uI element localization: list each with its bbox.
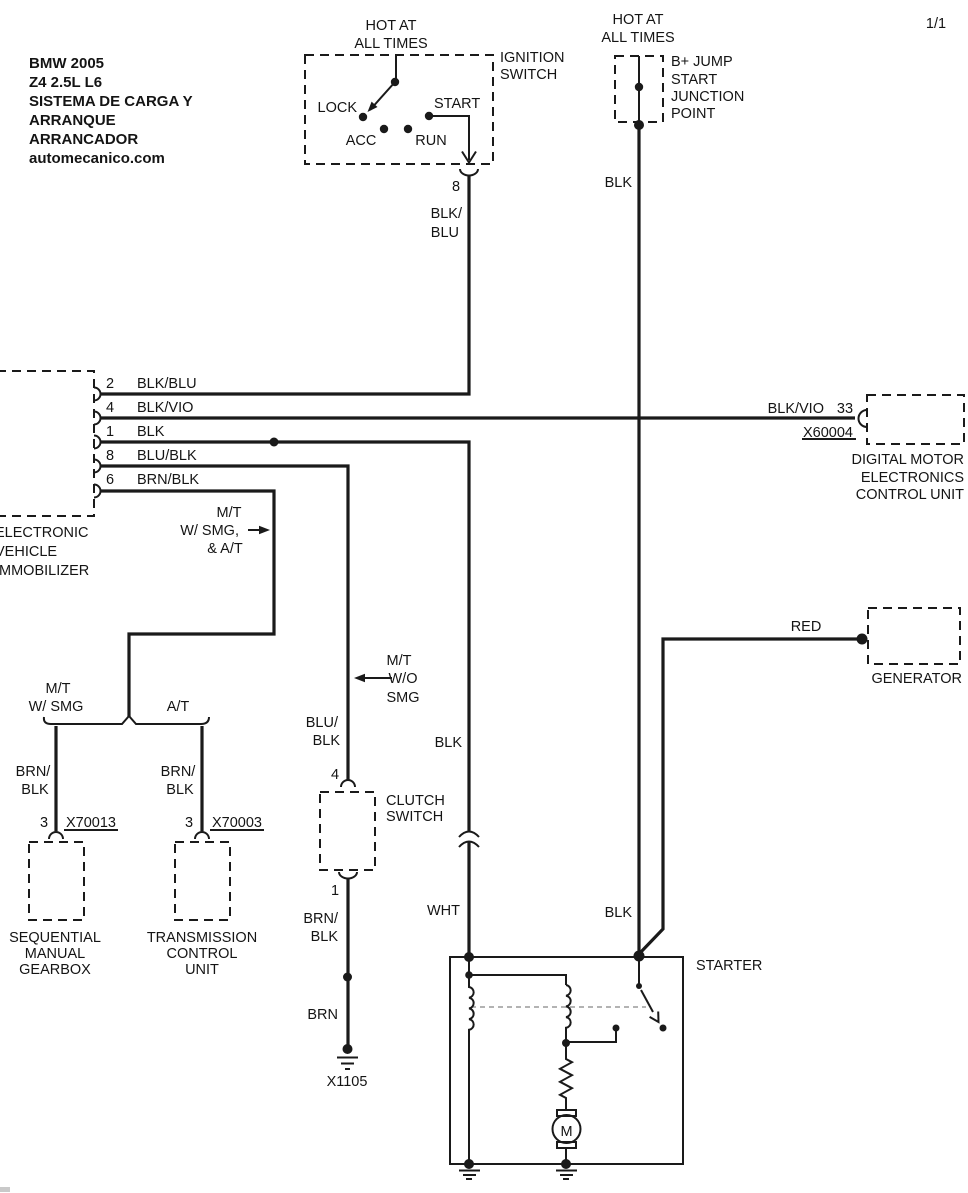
pin 8 wire BLU/BLK (to clutch switch)	[101, 466, 348, 780]
svg-text:ELECTRONICS: ELECTRONICS	[861, 470, 964, 486]
note M/T W/O SMG with arrow	[354, 653, 420, 706]
svg-text:JUNCTION: JUNCTION	[671, 89, 744, 105]
svg-text:LOCK: LOCK	[318, 100, 358, 116]
electronic vehicle immobilizer box	[0, 371, 94, 516]
svg-text:8: 8	[106, 448, 114, 464]
wire BLK (B+ to starter)	[637, 125, 640, 951]
svg-text:M/T: M/T	[217, 505, 242, 521]
svg-text:STARTER: STARTER	[696, 958, 762, 974]
clutch switch box	[320, 792, 375, 870]
digital motor electronics control unit box	[867, 395, 964, 444]
generator box	[868, 608, 960, 664]
wire BRN/BLK (M/T W/SMG branch)	[54, 726, 57, 831]
node B+/RED junction at starter	[634, 951, 645, 962]
ignition switch pivot dot	[391, 78, 399, 86]
svg-text:ALL TIMES: ALL TIMES	[354, 36, 427, 52]
solenoid switch arm	[641, 990, 653, 1012]
svg-text:MANUAL: MANUAL	[25, 946, 85, 962]
svg-text:X70013: X70013	[66, 815, 116, 831]
wire BRN/BLK below clutch switch	[346, 879, 349, 1049]
node ACC	[380, 125, 388, 133]
node START	[425, 112, 433, 120]
svg-text:CONTROL UNIT: CONTROL UNIT	[856, 487, 964, 503]
solenoid contact stud left	[613, 1025, 620, 1032]
ground (starter motor)	[561, 1159, 571, 1169]
ignition switch arm to LOCK	[370, 82, 395, 110]
wire BRN/BLK (A/T branch)	[200, 726, 203, 831]
svg-text:1/1: 1/1	[926, 16, 946, 32]
svg-text:BLK/BLU: BLK/BLU	[137, 376, 197, 392]
hold-in coil	[469, 957, 474, 1164]
svg-text:X70003: X70003	[212, 815, 262, 831]
immobilizer pin bumps	[94, 388, 101, 498]
pull-in coil	[566, 985, 571, 1043]
motor M	[557, 1110, 576, 1116]
svg-text:RED: RED	[791, 619, 822, 635]
svg-text:TRANSMISSION: TRANSMISSION	[147, 930, 257, 946]
splice node on pin 1 wire	[270, 438, 279, 447]
svg-text:START: START	[434, 96, 480, 112]
svg-text:B+ JUMP: B+ JUMP	[671, 54, 733, 70]
note M/T W/ SMG & A/T with arrow	[180, 505, 270, 557]
svg-text:BRN/: BRN/	[161, 764, 197, 780]
power label HOT AT ALL TIMES (B+ feed)	[601, 12, 674, 46]
pin 1 wire BLK (to starter WHT)	[101, 442, 469, 957]
svg-text:ARRANQUE: ARRANQUE	[29, 112, 116, 129]
svg-text:BLU/BLK: BLU/BLK	[137, 448, 197, 464]
node B+	[635, 83, 643, 91]
svg-text:SEQUENTIAL: SEQUENTIAL	[9, 930, 101, 946]
corner artifact	[0, 1187, 10, 1192]
svg-text:2: 2	[106, 376, 114, 392]
connector cup clutch bottom pin 1	[339, 872, 357, 879]
mechanical linkage dashed line	[471, 1006, 646, 1008]
wire break symbol on BLK/WHT wire	[459, 832, 479, 848]
svg-text:BLK: BLK	[137, 424, 165, 440]
svg-text:W/ SMG,: W/ SMG,	[180, 523, 239, 539]
svg-text:4: 4	[331, 767, 339, 783]
svg-text:BLK: BLK	[21, 782, 49, 798]
stud to pull-in coil wire	[566, 1028, 616, 1042]
svg-text:6: 6	[106, 472, 114, 488]
svg-text:GENERATOR: GENERATOR	[871, 671, 962, 687]
node B+ output	[634, 120, 644, 130]
svg-text:SWITCH: SWITCH	[386, 809, 443, 825]
svg-text:BLK: BLK	[313, 733, 341, 749]
B+ jump start junction point box	[615, 56, 663, 122]
node generator output	[857, 634, 868, 645]
svg-text:3: 3	[185, 815, 193, 831]
wire RED (generator to starter)	[639, 639, 862, 954]
svg-text:GEARBOX: GEARBOX	[19, 962, 91, 978]
svg-text:M/T: M/T	[387, 653, 412, 669]
svg-text:W/O: W/O	[389, 671, 418, 687]
power label HOT AT ALL TIMES (ignition feed)	[354, 18, 427, 52]
svg-text:BLK: BLK	[311, 929, 339, 945]
svg-text:X1105: X1105	[327, 1074, 368, 1090]
svg-text:BLU: BLU	[431, 225, 459, 241]
svg-text:SWITCH: SWITCH	[500, 67, 557, 83]
svg-text:START: START	[671, 72, 717, 88]
svg-text:BLK/VIO: BLK/VIO	[768, 401, 824, 417]
starter box	[450, 957, 683, 1164]
connector 3 X70003	[195, 832, 209, 839]
svg-text:HOT AT: HOT AT	[365, 18, 416, 34]
node LOCK	[359, 113, 367, 121]
svg-text:BRN/BLK: BRN/BLK	[137, 472, 199, 488]
hold-in coil branch node	[465, 971, 473, 979]
node RUN	[404, 125, 412, 133]
svg-text:HOT AT: HOT AT	[612, 12, 663, 28]
svg-text:BLU/: BLU/	[306, 715, 339, 731]
svg-text:DIGITAL MOTOR: DIGITAL MOTOR	[851, 452, 964, 468]
svg-text:BLK: BLK	[605, 905, 633, 921]
svg-text:WHT: WHT	[427, 903, 460, 919]
pin 6 wire BRN/BLK (to options split)	[101, 491, 274, 717]
svg-text:RUN: RUN	[415, 133, 446, 149]
svg-text:UNIT: UNIT	[185, 962, 219, 978]
title block	[29, 55, 193, 167]
ignition switch box	[305, 55, 493, 164]
splice node	[343, 973, 352, 982]
options split brace	[44, 716, 209, 724]
solenoid contact stud right	[660, 1025, 667, 1032]
svg-text:CONTROL: CONTROL	[167, 946, 238, 962]
svg-text:W/ SMG: W/ SMG	[29, 699, 84, 715]
svg-text:1: 1	[106, 424, 114, 440]
connector 3 X70013	[49, 832, 63, 839]
solenoid switch feed	[638, 956, 640, 984]
ignition switch feed wire	[395, 55, 397, 82]
transmission control unit box	[175, 842, 230, 920]
svg-text:BLK: BLK	[605, 175, 633, 191]
svg-text:33: 33	[837, 401, 853, 417]
svg-text:IGNITION: IGNITION	[500, 50, 564, 66]
node WHT at starter top	[464, 952, 474, 962]
svg-text:SMG: SMG	[386, 690, 419, 706]
svg-text:A/T: A/T	[167, 699, 190, 715]
ground X1105	[343, 1044, 353, 1054]
svg-text:ALL TIMES: ALL TIMES	[601, 30, 674, 46]
svg-text:ELECTRONIC: ELECTRONIC	[0, 525, 88, 541]
svg-text:BRN/: BRN/	[16, 764, 52, 780]
svg-text:BLK: BLK	[166, 782, 194, 798]
connector X60004 at DME	[859, 410, 868, 427]
svg-text:ACC: ACC	[346, 133, 377, 149]
svg-text:IMMOBILIZER: IMMOBILIZER	[0, 563, 89, 579]
wire BLK/BLU (ignition to immobilizer pin 2)	[101, 176, 469, 394]
svg-text:POINT: POINT	[671, 106, 715, 122]
svg-text:ARRANCADOR: ARRANCADOR	[29, 131, 138, 148]
svg-text:SISTEMA DE CARGA Y: SISTEMA DE CARGA Y	[29, 93, 193, 110]
svg-text:CLUTCH: CLUTCH	[386, 793, 445, 809]
svg-text:M/T: M/T	[46, 681, 71, 697]
svg-text:M: M	[560, 1124, 572, 1140]
svg-text:BRN/: BRN/	[303, 911, 339, 927]
svg-text:8: 8	[452, 179, 460, 195]
svg-text:BMW 2005: BMW 2005	[29, 55, 104, 72]
svg-text:BLK/: BLK/	[431, 206, 463, 222]
pin 4 wire BLK/VIO (to DME)	[101, 416, 855, 419]
svg-text:BRN: BRN	[307, 1007, 338, 1023]
connector 8 (ignition switch output)	[460, 169, 478, 176]
svg-text:Z4 2.5L L6: Z4 2.5L L6	[29, 74, 102, 91]
wire to pull-in coil	[469, 975, 566, 985]
sequential manual gearbox box	[29, 842, 84, 920]
svg-text:3: 3	[40, 815, 48, 831]
ground (starter solenoid)	[464, 1159, 474, 1169]
svg-text:VEHICLE: VEHICLE	[0, 544, 57, 560]
svg-text:& A/T: & A/T	[207, 541, 243, 557]
resistor (brush resistance)	[560, 1043, 572, 1110]
svg-text:1: 1	[331, 883, 339, 899]
connector dome clutch top	[341, 780, 355, 787]
svg-text:BLK/VIO: BLK/VIO	[137, 400, 193, 416]
svg-text:automecanico.com: automecanico.com	[29, 150, 165, 167]
node pull-in coil output	[562, 1039, 570, 1047]
wire START to connector 8	[429, 116, 469, 160]
svg-text:BLK: BLK	[435, 735, 463, 751]
svg-text:4: 4	[106, 400, 114, 416]
B+ junction internal wire	[638, 56, 640, 125]
